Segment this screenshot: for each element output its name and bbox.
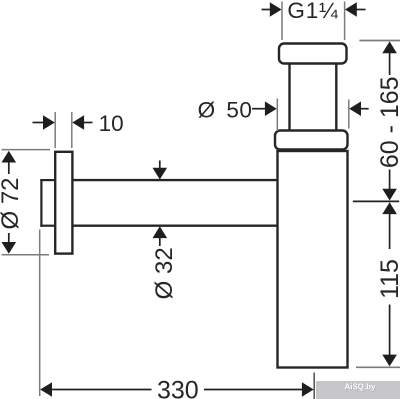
dim 10 left tail — [33, 122, 45, 124]
svg-text:Ø 32: Ø 32 — [151, 247, 178, 299]
dim G1 right arrow — [345, 2, 357, 17]
dim G1 left arrow — [270, 2, 282, 17]
wall pipe stub bottom — [40, 225, 55, 227]
dim 10 left arrow — [43, 115, 55, 130]
extension line dia72 bottom — [2, 254, 50, 256]
trap body — [278, 151, 348, 368]
extension line G1 left — [281, 2, 283, 41]
dim 115 up arrow — [382, 202, 397, 214]
svg-text:330: 330 — [157, 376, 199, 399]
svg-text:115: 115 — [376, 259, 400, 299]
dim 10 right tail — [84, 122, 93, 124]
dim 10 right arrow — [72, 115, 84, 130]
dim 330 line right segment — [204, 389, 303, 391]
dim 115 upper tail — [389, 214, 391, 249]
dim 60-165 down arrow — [382, 189, 397, 201]
extension line 10 left — [54, 112, 56, 148]
svg-text:Ø 50: Ø 50 — [198, 97, 253, 122]
dim 330 line left segment — [52, 389, 152, 391]
dim dia72 down arrow — [2, 242, 17, 254]
riser tube right line — [335, 65, 337, 131]
dim dia50 left tail — [252, 108, 266, 110]
wall flange — [55, 152, 72, 254]
dim G1 right tail — [357, 9, 366, 11]
dim 60-165 upper tail — [389, 53, 391, 75]
dim 115 down arrow — [382, 355, 397, 367]
dim 330 right arrow — [302, 382, 314, 397]
dim G1 left tail — [262, 9, 271, 11]
wall pipe stub top — [40, 179, 55, 181]
extension tick mid (60-165 / 115 shared) — [353, 200, 399, 202]
svg-text:Ø 72: Ø 72 — [0, 177, 24, 229]
dim 115 lower tail — [389, 305, 391, 357]
dim dia72 lower tail — [8, 233, 10, 243]
extension line 330 left — [39, 230, 41, 397]
wall pipe stub left — [40, 179, 42, 227]
dim dia32 bottom tail — [159, 238, 161, 247]
dim 60-165 lower tail — [389, 170, 391, 191]
lower nut — [275, 131, 348, 150]
svg-text:60 - 165: 60 - 165 — [376, 76, 400, 168]
dim dia50 left arrow — [265, 101, 277, 116]
svg-text:10: 10 — [99, 111, 124, 136]
dim dia32 down arrow — [153, 168, 168, 180]
top nut — [279, 44, 347, 64]
dim dia32 up arrow — [153, 226, 168, 238]
dim dia50 right arrow — [349, 101, 361, 116]
extension line 330 right — [313, 373, 315, 399]
dim 330 left arrow — [40, 382, 52, 397]
extension line dia50 right — [348, 100, 350, 129]
dim dia72 up arrow — [2, 151, 17, 163]
dim dia72 upper tail — [8, 162, 10, 174]
extension line dia50 left — [276, 99, 278, 132]
horizontal pipe top line — [72, 179, 277, 181]
horizontal pipe bottom line — [72, 224, 277, 226]
dim 60-165 up arrow — [382, 41, 397, 53]
extension line dia72 top — [2, 149, 51, 151]
watermark box — [316, 381, 400, 399]
dim dia50 right tail — [361, 108, 369, 110]
riser tube left line — [288, 65, 290, 131]
extension line G1 right — [344, 2, 346, 41]
extension tick 115 bottom — [356, 366, 400, 368]
dim dia32 top tail — [159, 161, 161, 170]
extension line 10 right — [71, 112, 73, 148]
svg-text:AiSQ.by: AiSQ.by — [344, 383, 376, 392]
svg-text:G1¼: G1¼ — [287, 0, 338, 23]
extension tick 60-165 top — [359, 40, 400, 42]
